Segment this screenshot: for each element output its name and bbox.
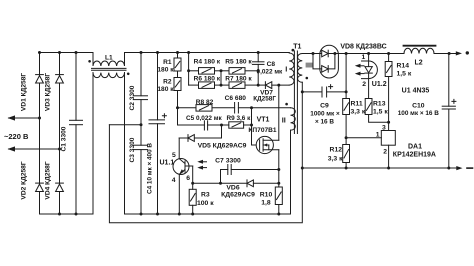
inductor L1 top winding [93,53,125,67]
wire ground loop to secondary [109,125,302,223]
svg-text:U1.2: U1.2 [372,81,387,88]
ferrite bead [306,63,313,68]
diode VD2 [36,184,44,191]
transformer T1 core [293,51,295,134]
inductor L1 bottom winding [93,73,125,78]
svg-text:× 16 В: × 16 В [315,119,334,126]
resistor R11 [345,54,347,99]
svg-text:R1: R1 [163,59,172,66]
svg-text:3,3 к: 3,3 к [328,156,343,163]
node snubber junctions [187,69,190,72]
node winding II phase dot [285,103,288,106]
wire secondary bottom column [301,82,303,168]
node bottom rail junctions [58,213,61,216]
wire AC input line 1 [9,117,40,119]
svg-text:R5 180 к: R5 180 к [225,59,252,66]
svg-text:R6 180 к: R6 180 к [194,76,221,83]
wire U1.1 base column [192,166,194,189]
svg-text:КР142ЕН19А: КР142ЕН19А [393,151,436,158]
label C10 plus [452,99,456,103]
node gate row junctions [220,124,223,127]
svg-text:T1: T1 [293,43,301,50]
resistor R6 [189,84,199,86]
svg-text:6: 6 [186,175,190,182]
regulator DA1 [381,131,395,146]
wire secondary top [302,53,321,55]
resistor R13 [365,99,372,115]
svg-text:R10: R10 [260,192,273,199]
svg-text:3,3 к: 3,3 к [351,109,366,116]
node R8 row junctions [176,106,179,109]
node AC junctions [38,117,41,120]
svg-text:100 мк × 16 В: 100 мк × 16 В [398,110,440,117]
diode VD1 [36,76,44,83]
wire bridge bottom rail [40,73,94,214]
capacitor C3 [134,144,148,146]
svg-text:DA1: DA1 [408,143,422,150]
svg-text:VT1: VT1 [257,117,270,124]
svg-text:1: 1 [362,54,366,61]
transistor VT1 [256,136,273,153]
svg-text:180 к: 180 к [157,86,174,93]
arrow AC input 1 [8,115,16,120]
resistor R3 [189,189,196,205]
svg-text:C4 10 мк × 400 В: C4 10 мк × 400 В [147,143,154,194]
svg-text:R9 3,6 к: R9 3,6 к [227,115,252,122]
diode VD5 [194,137,221,139]
svg-text:C3 3300: C3 3300 [129,137,136,162]
node L1 phase dot top [88,60,91,63]
label C9 plus [329,85,333,89]
svg-text:R13: R13 [373,101,386,108]
svg-text:180 к: 180 к [157,67,174,74]
capacitor C4 [157,53,159,120]
wire U1.1 collector [178,138,180,159]
node base row junctions [191,182,194,185]
svg-text:5: 5 [172,152,176,159]
resistor R9 [229,122,244,128]
capacitor C2 [140,53,142,96]
svg-text:R14: R14 [397,63,410,70]
svg-text:VD1 КД258Г: VD1 КД258Г [21,73,28,111]
capacitor C7 [221,170,228,184]
capacitor C10 [448,54,450,107]
svg-text:R4 180 к: R4 180 к [194,59,221,66]
svg-text:1000 мк ×: 1000 мк × [310,111,340,118]
svg-text:C2 3300: C2 3300 [129,85,136,110]
node C2C3 midpoint [140,123,143,126]
wire AC input line 2 [9,148,60,150]
svg-text:VD3 КД258Г: VD3 КД258Г [45,73,52,111]
wire secondary ground rail [302,167,457,169]
resistor R14 [388,54,390,62]
svg-text:R12: R12 [330,147,343,154]
svg-text:0,022 мк: 0,022 мк [257,69,283,76]
svg-text:3: 3 [382,124,386,131]
wire top rail left (bridge output +) [39,52,94,54]
node top rail junctions [38,51,41,54]
diode VD8 upper [322,50,329,57]
svg-text:4: 4 [172,177,176,184]
wire snubber mid column [220,71,222,85]
wire drain column [278,85,280,140]
arrow opto light 3 [357,65,364,67]
wire C2/C3 midpoint tap [109,124,141,126]
capacitor C1 [75,53,77,121]
arrow opto light 1 [200,161,207,163]
wire bridge column VD1/VD2 [39,53,41,215]
wire U1.1 emitter [178,174,180,214]
svg-text:КП707В1: КП707В1 [248,127,277,134]
inductor L1 core [92,67,127,69]
wire plus output [434,53,458,55]
optocoupler U1.1 [173,159,189,175]
svg-text:C10: C10 [412,103,425,110]
svg-text:C8: C8 [267,61,276,68]
arrow opto light 2 [200,167,207,169]
svg-text:C6 680: C6 680 [225,95,247,102]
node secondary junctions [312,52,315,55]
capacitor C9 [302,91,322,93]
svg-text:C5 0,022 мк: C5 0,022 мк [186,115,222,122]
arrow opto light 4 [357,73,364,75]
resistor R4 [189,70,199,72]
wire source column [278,150,280,187]
wire main minus rail [125,73,291,214]
optocoupler U1.2 envelope [362,61,378,79]
arrow AC input 2 [8,146,16,151]
wire R13 bottom jog [369,115,389,123]
wire bridge column VD3/VD4 [59,53,61,215]
wire secondary plus rail [328,53,404,55]
capacitor C5 [178,124,205,126]
svg-text:R11: R11 [351,101,363,108]
resistor R10 [275,187,282,205]
resistor R5 [215,70,230,72]
svg-text:C1 3300: C1 3300 [61,126,68,151]
svg-text:C9: C9 [320,103,329,110]
svg-text:VD8 КД238ВС: VD8 КД238ВС [340,44,386,51]
resistor R2 [177,71,179,78]
node ground rail junctions [301,167,304,170]
wire VD6 row [193,182,247,184]
svg-text:R2: R2 [163,78,172,85]
svg-text:1: 1 [376,131,380,138]
svg-text:2: 2 [362,81,366,88]
svg-text:C7 3300: C7 3300 [215,158,241,165]
svg-text:L1: L1 [105,55,113,62]
svg-text:КД258Г: КД258Г [253,96,276,103]
capacitor C6 [212,107,235,109]
wire VD8 cathode join [328,54,335,69]
diode VD4 [56,184,64,191]
capacitor C8 [257,53,259,62]
resistor R7 [215,84,230,86]
terminal plus dot [466,51,469,54]
node L1 phase dot bottom [127,73,130,76]
svg-text:1,5 к: 1,5 к [373,109,388,116]
svg-text:L2: L2 [415,60,423,67]
svg-text:R7 180 к: R7 180 к [225,76,252,83]
diode VD8 lower [322,66,329,73]
diode VD6 [246,180,248,187]
wire top rail right (after L1 to T1) [125,52,290,54]
svg-text:R3: R3 [201,192,210,199]
wire U1.2 anode column [368,54,370,67]
inductor L2 core [404,45,436,47]
resistor R8 row [178,107,197,109]
svg-text:VD5 КД629АС9: VD5 КД629АС9 [198,143,247,150]
label C4 plus [162,114,166,118]
diode assembly VD8 envelope [320,45,339,78]
svg-text:1,5 к: 1,5 к [397,71,412,78]
svg-text:II: II [282,116,286,125]
wire DA1 anode [388,145,390,168]
wire snubber left column [188,53,190,86]
node secondary phase dot [306,77,309,80]
arrow minus output [456,166,462,170]
LED U1.2 [365,67,372,73]
svg-text:~220 В: ~220 В [4,132,29,141]
wire R2 bottom column [177,91,179,126]
arrow plus output [456,51,462,55]
svg-text:КД629АС9: КД629АС9 [221,191,255,198]
svg-text:I: I [285,64,287,73]
wire gate column [252,108,257,145]
svg-text:U1 4N35: U1 4N35 [402,87,430,94]
diode VD5 jog [221,125,223,138]
diode VD7 [258,84,265,86]
svg-text:VD2 КД258Г: VD2 КД258Г [21,161,28,199]
terminal minus dash [467,167,473,169]
inductor L2 [404,48,434,53]
resistor R12 [345,115,347,145]
svg-text:1,8: 1,8 [261,200,271,207]
wire VD8 lower input [313,54,322,69]
diode VD3 [56,76,64,83]
svg-text:VD4 КД258Г: VD4 КД258Г [45,161,52,199]
transformer T1 winding I [289,53,294,86]
transformer T1 winding II [291,108,296,130]
resistor R1 [177,53,179,59]
svg-text:2: 2 [383,149,387,156]
svg-text:U1.1: U1.1 [160,160,175,167]
svg-text:100 к: 100 к [197,200,214,207]
wire winding II bottom [290,130,292,214]
wire DA1 ref [346,137,381,139]
svg-text:R8 82: R8 82 [196,99,214,106]
node winding I phase dot [292,49,295,52]
transformer T1 secondary winding [298,54,303,83]
